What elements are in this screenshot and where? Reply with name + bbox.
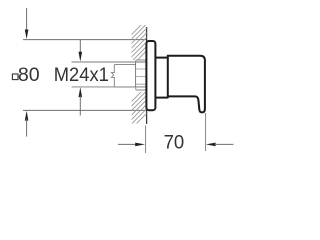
wall hatching upper band [120, 6, 160, 78]
escutcheon plate (square 80) side view [146, 41, 155, 110]
dimension 70: right extension line [205, 113, 207, 151]
handle neck top edge [155, 57, 167, 59]
svg-text:70: 70 [164, 132, 185, 154]
dimension 80: bottom extension line [23, 109, 147, 111]
dimension 80: upper arrow shaft [26, 8, 28, 31]
dimension 80: top extension line [23, 39, 147, 41]
dimension 70: left extension line [145, 126, 147, 154]
dimension 80: lower arrow shaft [26, 119, 28, 137]
dimension 80: upper arrowhead (down) [25, 30, 29, 40]
handle neck bottom edge [155, 97, 167, 99]
dimension 70: left line and arrowhead [118, 143, 136, 145]
dimension 70: right arrowhead and line [206, 143, 216, 147]
dimension M24x1: upper extension line [72, 61, 136, 63]
wall surface line [146, 27, 148, 124]
wall hole clearance edges [136, 60, 147, 90]
valve body outline (in-wall) [111, 65, 135, 87]
dimension M24x1: upper arrow shaft [79, 40, 81, 54]
dimension M24x1: lower extension line [72, 86, 136, 88]
dimension M24x1: lower arrow shaft [79, 96, 81, 116]
valve thread section M24 [136, 62, 147, 87]
wall hatching lower band [120, 73, 160, 140]
svg-text:M24x1: M24x1 [54, 64, 109, 86]
label square symbol of 80 [12, 74, 18, 80]
dimension M24x1: upper arrowhead (down) [79, 52, 83, 62]
thread lines [136, 69, 147, 84]
dimension M24x1: lower arrowhead (up) [79, 87, 83, 97]
svg-text:80: 80 [18, 64, 40, 86]
handle body outline [168, 56, 205, 113]
dimension 80: lower arrowhead (up) [25, 111, 29, 121]
